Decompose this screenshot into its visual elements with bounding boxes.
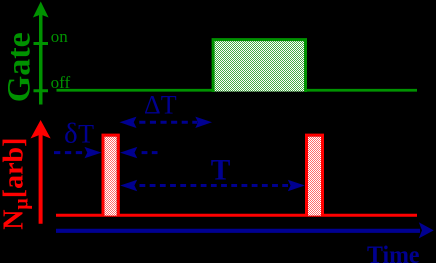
small-delta-T left arrowhead [85, 147, 102, 158]
time axis arrowhead [419, 222, 434, 238]
delta-T arrowhead left [120, 117, 137, 128]
delta-T arrow dashes [139, 121, 197, 124]
delta-T arrowhead right [195, 117, 212, 128]
small-delta-T right dashes [142, 151, 158, 154]
muon pulse 1 outline [103, 135, 118, 215]
gate axis arrowhead [33, 2, 49, 18]
muon pulse 1 fill [105, 137, 117, 216]
svg-text:Gate: Gate [1, 32, 37, 102]
T arrow dashes [140, 184, 289, 187]
gate pulse outline [213, 40, 305, 92]
svg-text:ΔT: ΔT [144, 91, 177, 120]
muon baseline [56, 214, 417, 217]
gate axis (green vertical) [39, 10, 43, 105]
gate pulse fill [215, 41, 305, 92]
time axis (blue horizontal) [56, 229, 420, 233]
T arrowhead left [120, 180, 137, 191]
T arrowhead right [288, 180, 305, 191]
svg-text:δT: δT [64, 118, 94, 150]
small-delta-T right arrowhead [120, 147, 137, 158]
muon axis arrowhead [31, 120, 51, 139]
muon pulse 2 fill [308, 137, 321, 216]
svg-text:Nμ[arb]: Nμ[arb] [0, 138, 33, 230]
svg-text:on: on [51, 27, 69, 46]
gate baseline (off level) [57, 89, 418, 92]
svg-text:Time: Time [367, 242, 420, 263]
small-delta-T left dashes [54, 151, 84, 154]
tick off [34, 89, 49, 92]
muon axis (red vertical) [39, 128, 43, 224]
svg-text:T: T [211, 153, 231, 186]
muon pulse 2 outline [307, 135, 323, 215]
tick on [34, 42, 49, 45]
